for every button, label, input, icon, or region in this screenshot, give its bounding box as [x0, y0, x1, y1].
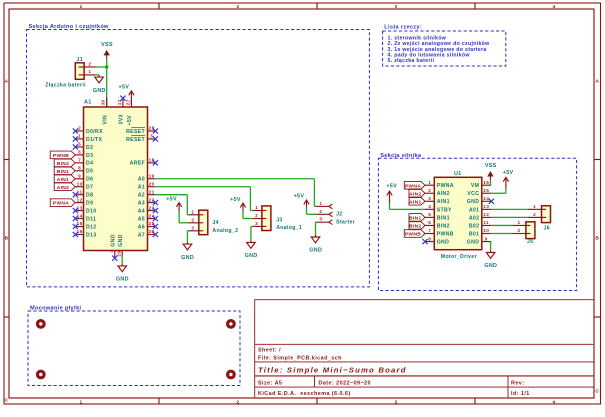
mounting hole H3	[36, 370, 46, 380]
global label PWNA at U1	[404, 181, 425, 189]
svg-text:A4: A4	[138, 209, 145, 215]
svg-text:10: 10	[483, 228, 489, 233]
ground symbol at J2	[311, 235, 320, 243]
global label AIN1 at U1	[409, 198, 425, 206]
mounting hole H4	[226, 370, 236, 380]
svg-text:A7: A7	[138, 232, 145, 238]
svg-text:D12: D12	[86, 224, 96, 230]
svg-text:D13: D13	[86, 232, 96, 238]
connector J2 (male pins)	[316, 205, 329, 207]
ground symbol at J4	[183, 242, 192, 250]
wire A1 pin29 to GND	[121, 256, 123, 264]
power symbol VSS at U1 VM	[489, 175, 491, 179]
svg-text:BIN2: BIN2	[409, 224, 421, 230]
A1 top pin 17 3V3	[122, 98, 124, 107]
junction	[105, 65, 109, 69]
wire U1 pin9 GND to ground	[490, 241, 493, 243]
global label AIN1	[54, 175, 75, 183]
svg-text:12: 12	[77, 197, 83, 202]
svg-text:16: 16	[483, 180, 489, 185]
svg-text:3: 3	[428, 196, 431, 201]
svg-text:2: 2	[319, 209, 322, 214]
wire VM to VSS	[489, 184, 492, 186]
svg-text:A01: A01	[469, 207, 479, 213]
svg-text:GND: GND	[437, 239, 450, 245]
svg-text:D4: D4	[86, 161, 93, 167]
power symbol +5V at STBY	[387, 191, 392, 203]
svg-text:6: 6	[428, 220, 431, 225]
svg-text:A6: A6	[138, 224, 145, 230]
connector J6	[542, 206, 551, 223]
svg-text:J4: J4	[212, 220, 218, 226]
svg-text:D10: D10	[86, 209, 96, 215]
global label AIN2 at U1	[409, 189, 425, 197]
global label PWNB at U1	[404, 230, 425, 238]
svg-text:Motor_Driver: Motor_Driver	[441, 254, 477, 260]
U1 pin14 no-connect	[489, 199, 494, 204]
svg-text:3: 3	[191, 225, 194, 230]
svg-text:A1: A1	[138, 185, 145, 191]
svg-text:GND: GND	[118, 234, 124, 246]
wire A2 to J4 pin1	[155, 194, 187, 196]
svg-text:A0: A0	[138, 177, 145, 183]
svg-text:A: A	[5, 79, 9, 85]
svg-text:+5V: +5V	[294, 194, 305, 200]
svg-text:VCC: VCC	[467, 191, 479, 197]
svg-text:D8: D8	[86, 193, 93, 199]
svg-text:13: 13	[483, 204, 489, 209]
ground symbol below U1	[486, 250, 495, 258]
wire VCC to +5V	[491, 192, 506, 194]
svg-text:1: 1	[319, 201, 322, 206]
global label PWNA	[50, 199, 75, 207]
svg-text:A3: A3	[138, 201, 145, 207]
A1 bottom pin 29 GND	[121, 251, 123, 257]
svg-text:C: C	[5, 398, 9, 404]
svg-text:D5: D5	[86, 169, 93, 175]
svg-text:VIN: VIN	[102, 115, 108, 125]
mounting hole H1	[36, 319, 46, 329]
svg-text:1: 1	[428, 180, 431, 185]
wire A0 to J2 pin1	[155, 178, 314, 180]
svg-text:GND: GND	[467, 239, 480, 245]
svg-text:3: 3	[150, 134, 153, 139]
svg-text:AIN1: AIN1	[409, 199, 421, 205]
svg-text:AIN2: AIN2	[437, 191, 450, 197]
svg-text:J6: J6	[544, 225, 550, 231]
svg-text:Date: 2022−09−20: Date: 2022−09−20	[319, 381, 371, 387]
A1 top pin 30 VIN	[106, 98, 108, 108]
connector J3	[262, 206, 271, 231]
svg-text:AIN2: AIN2	[57, 185, 69, 191]
svg-text:U1: U1	[454, 171, 462, 177]
global label BIN1 at U1	[409, 214, 425, 222]
wire B02 to J5 pin1	[491, 224, 512, 226]
svg-text:A5: A5	[138, 216, 145, 222]
power symbol VSS	[106, 54, 108, 58]
wire J4 pin3 to ground	[187, 230, 188, 232]
note box Sekcja silnika	[378, 158, 576, 290]
svg-text:Analog_1: Analog_1	[276, 225, 302, 231]
svg-text:21: 21	[149, 189, 155, 194]
power symbol +5V at J3	[240, 203, 245, 212]
svg-text:1: 1	[191, 209, 194, 214]
svg-text:2: 2	[237, 4, 240, 10]
IC U1 Motor_Driver	[434, 177, 482, 249]
svg-text:D11: D11	[86, 216, 96, 222]
svg-text:7: 7	[78, 158, 81, 163]
A1 right pins	[148, 130, 156, 132]
svg-text:KiCad E.D.A. eeschema (6.0.6): KiCad E.D.A. eeschema (6.0.6)	[258, 391, 351, 397]
wire +5V to J4 pin2	[178, 211, 180, 223]
svg-text:STBY: STBY	[437, 207, 452, 213]
svg-text:PWNA: PWNA	[53, 201, 69, 207]
power symbol +5V at J4	[176, 203, 181, 211]
svg-text:Sheet: /: Sheet: /	[258, 348, 281, 354]
svg-text:B01: B01	[469, 231, 479, 237]
svg-text:C: C	[595, 389, 599, 395]
svg-text:2: 2	[518, 228, 521, 233]
svg-text:3: 3	[255, 221, 258, 226]
svg-text:6: 6	[78, 150, 81, 155]
global label AIN2	[54, 183, 75, 191]
svg-text:PWNA: PWNA	[405, 183, 421, 189]
J1 pin 2	[84, 66, 96, 68]
svg-text:Lista rzeczy:: Lista rzeczy:	[384, 25, 422, 31]
svg-text:11: 11	[483, 220, 489, 225]
svg-text:PWNA: PWNA	[437, 183, 454, 189]
global label BIN1	[54, 167, 75, 175]
note box Sekcja Arduino i czujnikow	[27, 30, 370, 287]
svg-text:3V3: 3V3	[119, 114, 125, 124]
svg-text:29: 29	[117, 251, 122, 257]
ground symbol below A1	[118, 264, 127, 272]
svg-text:Analog_2: Analog_2	[212, 228, 238, 234]
svg-text:J2: J2	[336, 212, 342, 218]
svg-text:+5V: +5V	[166, 196, 177, 202]
svg-text:Starter: Starter	[336, 220, 355, 226]
svg-text:1: 1	[518, 220, 521, 225]
svg-text:2: 2	[88, 61, 91, 66]
svg-text:1: 1	[80, 4, 83, 10]
connector J1	[75, 63, 84, 80]
svg-text:BIN2: BIN2	[57, 161, 69, 167]
svg-text:1: 1	[255, 205, 258, 210]
svg-text:RESET: RESET	[126, 129, 145, 135]
svg-text:AIN2: AIN2	[409, 191, 421, 197]
mounting hole H2	[226, 319, 236, 329]
A1 right no-connect marks	[153, 128, 158, 133]
svg-text:4: 4	[109, 250, 114, 253]
A1 left no-connect marks	[73, 128, 78, 133]
svg-text:PWNB: PWNB	[437, 231, 454, 237]
svg-text:10: 10	[77, 181, 83, 186]
svg-text:VM: VM	[471, 183, 479, 189]
svg-text:B: B	[5, 236, 9, 242]
svg-text:5: 5	[428, 212, 431, 217]
svg-text:A2: A2	[138, 193, 145, 199]
svg-text:5: 5	[78, 142, 81, 147]
connector J5	[526, 222, 535, 239]
A1 top pin 27 +5V with power symbol	[130, 99, 132, 108]
power symbol +5V at U1 VCC	[503, 177, 508, 188]
svg-text:B: B	[595, 236, 599, 242]
svg-text:+5V: +5V	[386, 184, 397, 190]
svg-text:AREF: AREF	[130, 161, 145, 167]
svg-text:AIN1: AIN1	[57, 177, 69, 183]
svg-text:Title: Simple Mini−Sumo Board: Title: Simple Mini−Sumo Board	[258, 366, 407, 375]
svg-text:1: 1	[78, 134, 81, 139]
svg-text:+5V: +5V	[118, 85, 129, 91]
wire J1 pin2 to junction	[96, 66, 107, 68]
svg-text:A1: A1	[84, 100, 92, 106]
svg-text:4: 4	[428, 204, 431, 209]
svg-text:4: 4	[553, 4, 556, 10]
svg-text:BIN1: BIN1	[57, 169, 69, 175]
svg-text:2: 2	[255, 213, 258, 218]
svg-text:GND: GND	[467, 199, 480, 205]
svg-text:5. złączka baterii: 5. złączka baterii	[388, 58, 435, 64]
svg-text:2: 2	[191, 217, 194, 222]
wire B01 to J5 pin2	[491, 233, 512, 235]
svg-text:7: 7	[428, 228, 431, 233]
svg-text:GND: GND	[245, 253, 258, 259]
svg-text:GND: GND	[116, 277, 129, 283]
svg-text:Id: 1/1: Id: 1/1	[511, 391, 530, 397]
svg-text:BIN1: BIN1	[409, 216, 421, 222]
svg-text:1: 1	[88, 69, 91, 74]
svg-text:1: 1	[80, 399, 83, 405]
svg-text:3: 3	[395, 399, 398, 405]
A1 bottom pin 4 GND (no-connect)	[114, 251, 116, 259]
J1 pin 1	[84, 74, 95, 76]
wire +5V to J2 pin2	[306, 208, 308, 214]
svg-text:J1: J1	[77, 57, 83, 63]
svg-text:12: 12	[483, 212, 489, 217]
svg-text:GND: GND	[309, 248, 322, 254]
IC A1 (Arduino module)	[84, 107, 148, 251]
svg-text:2: 2	[237, 399, 240, 405]
svg-text:D0/RX: D0/RX	[86, 129, 103, 135]
global label BIN2 at U1	[409, 222, 425, 230]
svg-text:1: 1	[533, 204, 536, 209]
svg-text:PWNB: PWNB	[405, 232, 421, 238]
wire A02 to J6 pin2	[491, 216, 528, 218]
svg-text:GND: GND	[93, 88, 106, 94]
svg-text:A02: A02	[469, 215, 479, 221]
svg-text:2: 2	[428, 188, 431, 193]
wire J3 pin3 to ground	[251, 225, 253, 227]
svg-text:+5V: +5V	[127, 115, 133, 126]
note box Mocowanie plytki	[28, 311, 240, 386]
svg-text:3: 3	[395, 4, 398, 10]
ground symbol at J3	[247, 240, 256, 248]
svg-text:Sekcja Arduino i czujników: Sekcja Arduino i czujników	[29, 24, 110, 30]
wire A01 to J6 pin1	[491, 208, 528, 210]
power symbol +5V at J2	[304, 200, 309, 208]
svg-text:PWNB: PWNB	[53, 153, 69, 159]
svg-text:8: 8	[78, 166, 81, 171]
U1 right pins 16-9	[482, 184, 491, 186]
svg-text:VSS: VSS	[485, 163, 497, 169]
svg-text:Rev:: Rev:	[511, 381, 524, 387]
svg-text:B02: B02	[469, 223, 479, 229]
svg-text:Sekcja silnika: Sekcja silnika	[380, 153, 422, 159]
svg-text:14: 14	[483, 196, 489, 201]
global label BIN2	[54, 159, 75, 167]
svg-text:+5V: +5V	[230, 197, 241, 203]
svg-text:2: 2	[78, 126, 81, 131]
wire J2 pin3 to ground	[315, 222, 317, 235]
svg-text:File: Simple_PCB.kicad_sch: File: Simple_PCB.kicad_sch	[258, 355, 342, 361]
wire junction to VIN pin	[106, 67, 108, 107]
U1 left pins 1-8	[425, 184, 434, 186]
wire +5V to U1 STBY	[389, 203, 391, 209]
svg-text:2: 2	[533, 212, 536, 217]
svg-text:Size: A5: Size: A5	[258, 381, 282, 387]
svg-text:J3: J3	[276, 218, 282, 224]
svg-text:4: 4	[553, 399, 556, 405]
svg-text:9: 9	[485, 236, 488, 241]
wire A1 to J3 pin1	[155, 186, 250, 188]
svg-text:D6: D6	[86, 177, 93, 183]
svg-text:D2: D2	[86, 145, 93, 151]
svg-text:Mocowanie płytki: Mocowanie płytki	[30, 306, 82, 312]
global label PWNB	[50, 151, 75, 159]
svg-text:GND: GND	[484, 263, 497, 269]
svg-text:D7: D7	[86, 185, 93, 191]
U1 pin8 no-connect	[422, 239, 427, 244]
svg-text:27: 27	[125, 99, 130, 105]
svg-text:BIN2: BIN2	[437, 223, 450, 229]
svg-text:15: 15	[483, 188, 489, 193]
svg-text:GND: GND	[111, 234, 117, 247]
connector J4	[199, 210, 208, 235]
svg-text:GND: GND	[181, 255, 194, 261]
svg-text:30: 30	[101, 99, 106, 105]
svg-text:19: 19	[149, 173, 155, 178]
svg-text:VSS: VSS	[101, 42, 113, 48]
svg-text:20: 20	[149, 181, 155, 186]
wire +5V to J3 pin2	[242, 212, 244, 219]
svg-text:8: 8	[428, 236, 431, 241]
svg-text:AIN1: AIN1	[437, 199, 450, 205]
svg-text:J5: J5	[527, 239, 533, 245]
svg-text:BIN1: BIN1	[437, 215, 450, 221]
ground symbol at J1 pin 1	[95, 74, 99, 76]
svg-text:D9: D9	[86, 201, 93, 207]
svg-text:D3: D3	[86, 153, 93, 159]
A1 left pins D0-D13	[75, 130, 83, 132]
svg-text:D1/TX: D1/TX	[86, 137, 103, 143]
note box Lista rzeczy	[383, 31, 506, 66]
svg-text:A: A	[595, 79, 599, 85]
svg-text:RESET: RESET	[126, 137, 145, 143]
svg-text:+5V: +5V	[503, 170, 514, 176]
svg-text:9: 9	[78, 173, 81, 178]
svg-text:3: 3	[319, 217, 322, 222]
svg-text:Złączka baterii: Złączka baterii	[45, 83, 86, 89]
